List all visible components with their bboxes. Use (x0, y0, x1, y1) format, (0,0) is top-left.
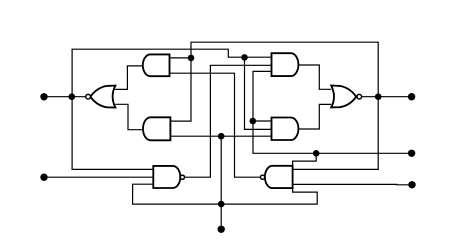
junction at right NOR output (375, 93, 382, 100)
wire: dot252 branch to AND4.in1 (253, 120, 271, 122)
bubble of NOR N2 (357, 94, 362, 99)
terminal left top (40, 93, 47, 100)
wire: center vertical from mid rail to bottom terminal (220, 136, 222, 229)
junction dot1 on AND1.in1 (188, 55, 195, 62)
nand-gate N3 (right-facing, bottom-left, 3-input) body (153, 166, 180, 188)
wire: AND3.in3 via V5 down to y153 rail to right terminal (253, 71, 412, 153)
wire: AND4 output to right NOR in2 (298, 104, 331, 129)
wire: vertical x72 feedback, top route over to AND3.in1, bottom to NAND-L.in1 (72, 49, 271, 169)
terminal bottom (218, 226, 225, 233)
wire: left NOR output row to left terminal (44, 96, 86, 98)
wire: dot316 wrap-around to bottom rail and NAND-L.in3 (133, 153, 318, 204)
terminal left bottom (40, 174, 47, 181)
junction on bottom rail (218, 201, 225, 208)
wire: NAND-R.in2 to right lower terminal (293, 183, 412, 185)
terminal right low (408, 181, 415, 188)
and-gate A2 (left-facing, bottom-left) (143, 117, 170, 140)
wire: mid rail AND2.in2 to AND4.in3 (170, 135, 271, 137)
wire: left bottom terminal to NAND-L.in2 (44, 176, 153, 178)
and-gate A1 (left-facing, top-left) (143, 54, 170, 76)
terminal right mid (408, 150, 415, 157)
wire: NAND-L output via V2 up to AND3.in2 (185, 65, 272, 177)
wire: AND1.in1 stub to dot1 (170, 57, 191, 59)
junction on y153 rail (313, 150, 320, 157)
nor-gate N1 (left-facing) body (90, 86, 115, 108)
wire: right NOR output to right terminal (362, 96, 412, 98)
wire: NAND-R output via V3 up to AND1.in2 (170, 73, 261, 177)
bubble of NOR N1 (86, 94, 91, 99)
nor-gate N2 (right-facing) body (331, 86, 356, 108)
wire: AND3 output to right NOR in1 (298, 65, 331, 89)
terminal right Q (408, 93, 415, 100)
wire: AND1 output to left NOR in1 (115, 66, 143, 90)
wire: Q feedback, AND2.in1 - V1 up - top line y42 - x378 down - NAND-R.in1 (170, 42, 378, 169)
junction on mid rail (218, 133, 225, 140)
junction dot2 on AND3.in1 (241, 54, 248, 61)
bubble of NAND N3 (180, 175, 184, 179)
and-gate A3 (right-facing, top-right, 3-input) (272, 53, 299, 76)
wire: AND2 output to left NOR in2 (115, 104, 143, 129)
nand-gate N4 (left-facing, bottom-right) body (265, 166, 293, 188)
junction at left NOR output (69, 93, 76, 100)
wire: dot2 drop V4 to AND4.in2 (245, 57, 272, 129)
and-gate A4 (right-facing, bottom-right, 3-input) (272, 118, 299, 141)
junction on AND4.in1 (250, 118, 257, 125)
bubble of NAND N4 (261, 175, 265, 179)
